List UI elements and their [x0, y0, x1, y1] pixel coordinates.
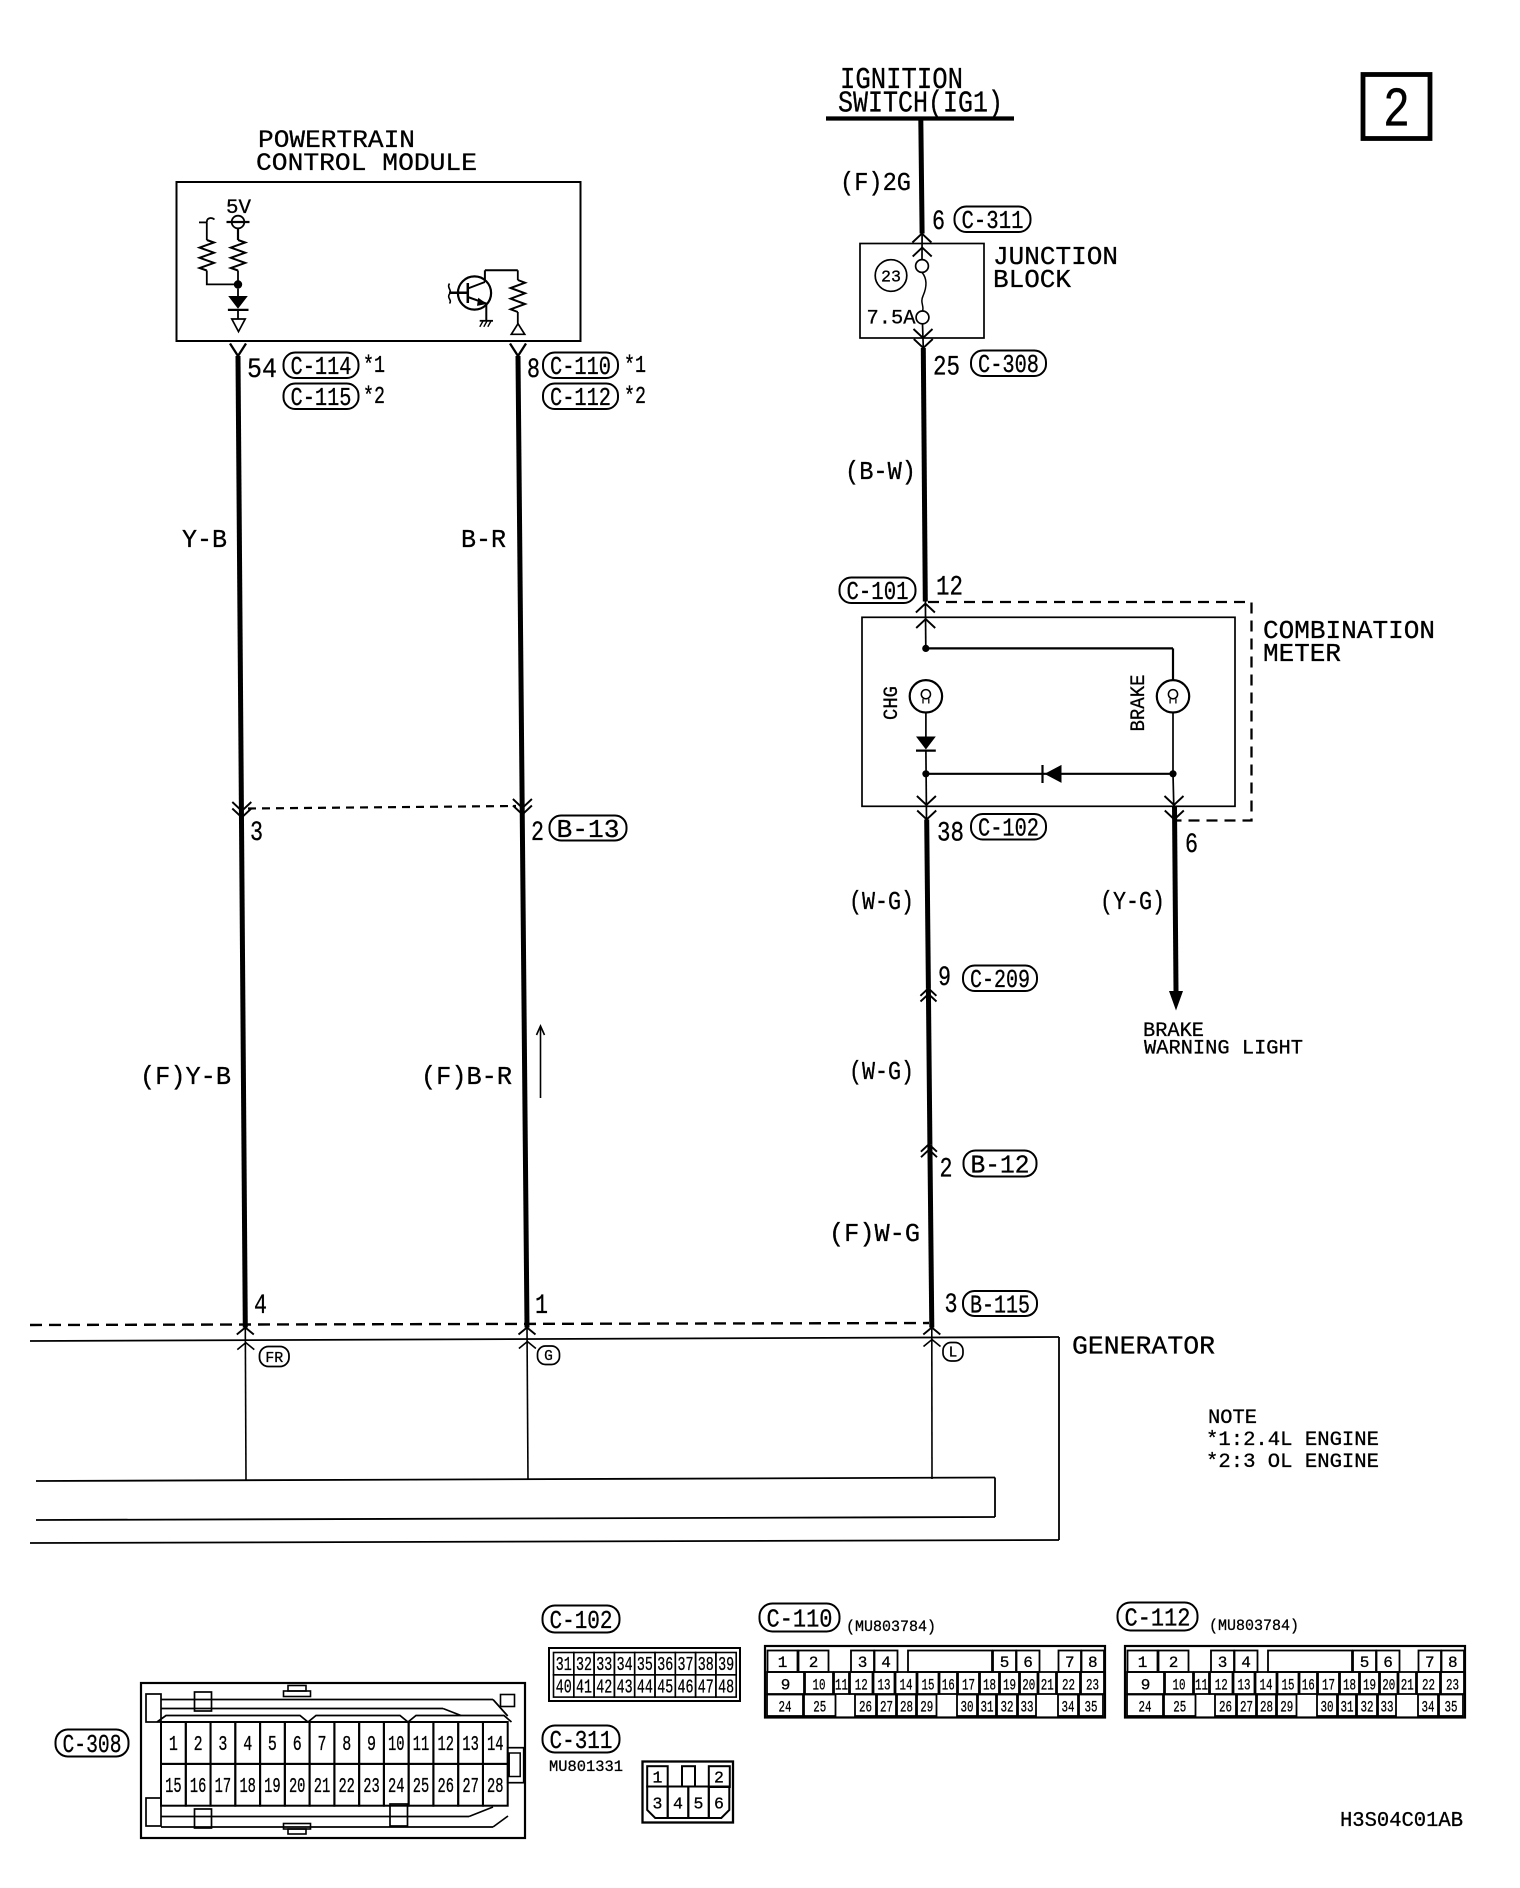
label (F)B-R [421, 1062, 512, 1092]
svg-text:43: 43 [617, 1676, 633, 1698]
svg-text:12: 12 [438, 1734, 455, 1757]
pin 1 label [535, 1291, 548, 1322]
svg-text:38: 38 [937, 819, 964, 850]
wire R2 to node [207, 271, 234, 285]
combination meter dashed outline [928, 602, 1252, 821]
generator wire L [931, 1328, 933, 1480]
svg-text:(F)W-G: (F)W-G [829, 1219, 920, 1249]
connector B-13 [550, 815, 627, 845]
svg-text:1: 1 [1138, 1654, 1148, 1672]
wire junction to meter [923, 324, 926, 649]
terminal FR [260, 1347, 290, 1367]
connector C-114 [284, 352, 359, 382]
svg-text:32: 32 [1361, 1699, 1374, 1717]
svg-text:20: 20 [1382, 1677, 1395, 1695]
svg-text:5: 5 [268, 1734, 277, 1757]
diode D3 [1043, 765, 1062, 783]
svg-text:11: 11 [413, 1734, 430, 1757]
wire node D to meter exit [1173, 774, 1174, 820]
svg-text:54: 54 [247, 355, 277, 386]
svg-text:13: 13 [462, 1734, 479, 1757]
svg-text:22: 22 [338, 1776, 355, 1799]
svg-text:45: 45 [657, 1676, 673, 1698]
fuse 7.5A [916, 260, 929, 324]
svg-text:(W-G): (W-G) [849, 1057, 914, 1087]
svg-text:23: 23 [363, 1776, 380, 1799]
svg-text:1: 1 [653, 1769, 663, 1788]
svg-text:32: 32 [576, 1654, 592, 1676]
pin 3 label (B-115) [945, 1290, 958, 1321]
pin 12 label [936, 573, 963, 604]
svg-text:25: 25 [813, 1699, 826, 1717]
connector B-13 chevrons left [232, 802, 251, 818]
svg-text:28: 28 [900, 1699, 913, 1717]
svg-text:(W-G): (W-G) [849, 887, 914, 917]
svg-text:1: 1 [778, 1654, 788, 1672]
generator pin L chevrons [923, 1328, 940, 1347]
svg-text:6: 6 [1023, 1654, 1033, 1672]
flow arrow [537, 1026, 545, 1098]
terminal L [943, 1343, 963, 1362]
svg-text:34: 34 [1062, 1699, 1075, 1717]
svg-text:3: 3 [858, 1654, 868, 1672]
wire W-G middle [928, 988, 930, 1144]
label (F)W-G [829, 1219, 920, 1249]
svg-text:47: 47 [698, 1676, 714, 1698]
svg-text:2: 2 [1169, 1654, 1179, 1672]
svg-text:C-311: C-311 [550, 1726, 613, 1756]
svg-text:3: 3 [218, 1734, 227, 1757]
svg-text:17: 17 [1322, 1677, 1335, 1695]
open arrow at pin 8 [511, 324, 524, 335]
connector C-110 pinout [765, 1646, 1105, 1718]
svg-text:15: 15 [922, 1677, 935, 1695]
svg-text:Y-B: Y-B [182, 525, 227, 555]
transistor Q1 collector [468, 270, 485, 288]
svg-text:14: 14 [900, 1677, 913, 1695]
junction block label [993, 242, 1118, 295]
svg-text:*1: *1 [624, 353, 646, 380]
svg-text:L: L [949, 1346, 958, 1362]
svg-text:9: 9 [1141, 1677, 1151, 1695]
wire ignition to junction block [921, 119, 922, 260]
svg-text:6: 6 [1383, 1654, 1393, 1672]
terminal G [538, 1346, 560, 1365]
connector B-13 dashed line [248, 806, 516, 809]
svg-text:21: 21 [1401, 1677, 1414, 1695]
generator label [1072, 1332, 1215, 1362]
open arrow to pin 54 [232, 319, 245, 332]
svg-text:BLOCK: BLOCK [993, 265, 1071, 295]
svg-text:18: 18 [239, 1776, 256, 1799]
svg-text:C-110: C-110 [767, 1604, 833, 1634]
svg-text:10: 10 [813, 1677, 826, 1695]
junction exit chevrons [914, 329, 933, 348]
label B-R [461, 525, 506, 555]
svg-text:30: 30 [961, 1699, 974, 1717]
svg-text:19: 19 [1003, 1677, 1016, 1695]
meter entry chevrons [916, 604, 935, 629]
label BRAKE [1128, 675, 1151, 732]
svg-text:12: 12 [1215, 1677, 1228, 1695]
pin 54 label [247, 355, 277, 386]
svg-text:(F)2G: (F)2G [840, 168, 911, 198]
svg-text:8: 8 [342, 1734, 351, 1757]
svg-text:21: 21 [1041, 1677, 1054, 1695]
svg-text:C-308: C-308 [63, 1730, 122, 1760]
svg-text:19: 19 [1363, 1677, 1376, 1695]
svg-text:33: 33 [1021, 1699, 1034, 1717]
svg-text:25: 25 [413, 1776, 430, 1799]
svg-text:8: 8 [1088, 1654, 1098, 1672]
svg-text:24: 24 [388, 1776, 405, 1799]
meter lower rail [926, 773, 1173, 775]
connector C-102 ref [971, 814, 1046, 844]
svg-text:(F)Y-B: (F)Y-B [140, 1062, 231, 1092]
connector C-102 pinout [549, 1648, 740, 1701]
wire F W-G [930, 1144, 932, 1327]
label (F)Y-B [140, 1062, 231, 1092]
note mark *2 (C-115) [363, 384, 385, 411]
brake warning light arrow [1169, 991, 1183, 1011]
svg-text:*1:2.4L ENGINE: *1:2.4L ENGINE [1206, 1429, 1379, 1452]
svg-text:4: 4 [254, 1291, 267, 1322]
generator bus top [36, 1478, 995, 1482]
svg-text:35: 35 [637, 1654, 653, 1676]
svg-text:31: 31 [556, 1654, 572, 1676]
pin 38 label [937, 819, 964, 850]
svg-text:(B-W): (B-W) [845, 457, 916, 487]
svg-text:4: 4 [673, 1795, 683, 1814]
connector C-308 ref label [56, 1730, 129, 1760]
svg-text:23: 23 [1446, 1677, 1459, 1695]
note text [1206, 1407, 1379, 1474]
connector B-12 chevrons [921, 1144, 937, 1157]
pin 6 label (brake) [1185, 830, 1198, 861]
svg-text:27: 27 [1240, 1699, 1253, 1717]
svg-text:MU801331: MU801331 [549, 1758, 623, 1776]
svg-text:7.5A: 7.5A [867, 308, 916, 331]
generator pin G chevrons [519, 1328, 536, 1349]
svg-text:34: 34 [1422, 1699, 1435, 1717]
connector C-110 part number [846, 1618, 936, 1636]
fuse number 23 [875, 260, 907, 292]
connector C-112 pinout [1125, 1646, 1465, 1718]
connector C-115 [284, 383, 359, 413]
transistor Q1 emitter [468, 297, 487, 306]
svg-text:SWITCH(IG1): SWITCH(IG1) [838, 87, 1003, 122]
ground [480, 321, 493, 327]
svg-text:20: 20 [289, 1776, 306, 1799]
svg-text:30: 30 [1321, 1699, 1334, 1717]
connector C-311 ref label [543, 1726, 620, 1756]
svg-text:44: 44 [637, 1676, 653, 1698]
svg-text:16: 16 [190, 1776, 207, 1799]
resistor R2 [200, 240, 214, 271]
node D [1169, 770, 1176, 777]
svg-text:G: G [544, 1349, 553, 1365]
svg-text:19: 19 [264, 1776, 281, 1799]
svg-text:39: 39 [718, 1654, 734, 1676]
wire CHG lamp to diode [925, 713, 927, 737]
label (B-W) [845, 457, 916, 487]
label (W-G) upper [849, 887, 914, 917]
svg-text:9: 9 [781, 1677, 791, 1695]
connector C-311 part number [549, 1758, 623, 1776]
svg-text:7: 7 [318, 1734, 327, 1757]
svg-text:*2: *2 [624, 384, 646, 411]
svg-text:10: 10 [1173, 1677, 1186, 1695]
svg-text:(MU803784): (MU803784) [1209, 1617, 1299, 1635]
svg-text:22: 22 [1422, 1677, 1435, 1695]
meter top rail [926, 647, 1173, 649]
svg-text:48: 48 [718, 1676, 734, 1698]
label (F)2G [840, 168, 911, 198]
resistor R3 [511, 280, 525, 312]
svg-text:*2: *2 [363, 384, 385, 411]
svg-text:32: 32 [1001, 1699, 1014, 1717]
label Y-B [182, 525, 227, 555]
node B [922, 645, 929, 652]
combination meter box [862, 617, 1235, 806]
connector B-12 ref [964, 1150, 1037, 1180]
svg-text:40: 40 [556, 1676, 572, 1698]
note mark *1 (C-110) [624, 353, 646, 380]
svg-text:B-13: B-13 [557, 815, 620, 845]
diode D1 [228, 289, 249, 319]
brake warning light label [1143, 1020, 1303, 1061]
svg-text:6: 6 [714, 1795, 724, 1814]
svg-text:26: 26 [1219, 1699, 1232, 1717]
svg-text:8: 8 [1448, 1654, 1458, 1672]
svg-text:22: 22 [1062, 1677, 1075, 1695]
label CHG [881, 686, 904, 720]
svg-text:1: 1 [169, 1734, 178, 1757]
node A [234, 280, 242, 288]
svg-text:26: 26 [859, 1699, 872, 1717]
svg-text:13: 13 [1238, 1677, 1251, 1695]
meter exit chevrons BRAKE [1165, 796, 1184, 820]
svg-text:C-115: C-115 [291, 383, 352, 413]
svg-text:23: 23 [881, 269, 901, 288]
svg-text:B-R: B-R [461, 525, 506, 555]
svg-text:4: 4 [881, 1654, 891, 1672]
generator box top [30, 1337, 1059, 1341]
wire diode to node C [925, 751, 928, 820]
emitter wire [485, 304, 487, 321]
generator box bottom [30, 1540, 1059, 1543]
node C [922, 770, 929, 777]
svg-text:2: 2 [714, 1769, 724, 1788]
svg-text:14: 14 [487, 1734, 504, 1757]
svg-text:38: 38 [698, 1654, 714, 1676]
connector C-110 ref [543, 352, 618, 382]
svg-text:2: 2 [809, 1654, 819, 1672]
lamp BRAKE [1157, 680, 1189, 712]
svg-text:(F)B-R: (F)B-R [421, 1062, 512, 1092]
wire R1 to node [237, 271, 239, 282]
svg-text:C-209: C-209 [970, 965, 1030, 995]
pin 6 label [932, 207, 945, 238]
svg-text:FR: FR [265, 1350, 283, 1367]
svg-text:2: 2 [1383, 79, 1410, 143]
svg-text:(Y-G): (Y-G) [1100, 887, 1165, 917]
svg-text:18: 18 [983, 1677, 996, 1695]
resistor R1 [231, 240, 245, 271]
svg-text:15: 15 [1282, 1677, 1295, 1695]
svg-text:5: 5 [1000, 1654, 1010, 1672]
svg-text:8: 8 [527, 355, 540, 386]
generator wire FR [244, 1328, 247, 1482]
svg-text:25: 25 [1173, 1699, 1186, 1717]
svg-text:7: 7 [1425, 1654, 1435, 1672]
svg-text:28: 28 [487, 1776, 504, 1799]
generator bus bottom [36, 1517, 995, 1520]
svg-text:C-114: C-114 [291, 352, 352, 382]
svg-text:20: 20 [1022, 1677, 1035, 1695]
svg-text:16: 16 [942, 1677, 955, 1695]
meter exit chevrons CHG [917, 796, 936, 820]
svg-text:15: 15 [165, 1776, 182, 1799]
wire W-G upper [927, 820, 929, 989]
svg-text:C-102: C-102 [978, 814, 1039, 844]
connector C-308 pinout [141, 1683, 525, 1838]
wire R3 to pin 8 [517, 312, 519, 324]
junction entry chevrons [912, 234, 931, 257]
generator dashed line [30, 1323, 929, 1325]
note mark *1 (C-114) [363, 353, 385, 380]
pin 8 connector symbol [510, 344, 526, 357]
pin 25 label [933, 353, 960, 384]
svg-text:37: 37 [678, 1654, 694, 1676]
svg-text:2: 2 [194, 1734, 203, 1757]
ignition switch label [838, 63, 1003, 122]
connector C-112 pinout label [1118, 1603, 1198, 1634]
svg-text:*2:3 OL ENGINE: *2:3 OL ENGINE [1206, 1451, 1379, 1474]
svg-text:9: 9 [938, 963, 951, 994]
svg-text:9: 9 [367, 1734, 376, 1757]
connector B-115 ref [963, 1290, 1037, 1320]
lamp CHG [910, 680, 942, 712]
PCM box [177, 182, 581, 341]
wire BRAKE lamp to node D [1172, 713, 1174, 774]
svg-text:17: 17 [962, 1677, 975, 1695]
generator wire G [527, 1328, 528, 1481]
wire Y-B [238, 356, 245, 1328]
svg-text:36: 36 [657, 1654, 673, 1676]
svg-text:31: 31 [981, 1699, 994, 1717]
note mark *2 (C-112) [624, 384, 646, 411]
svg-text:21: 21 [314, 1776, 331, 1799]
generator pin FR chevrons [237, 1328, 255, 1350]
svg-text:41: 41 [576, 1676, 592, 1698]
svg-text:3: 3 [250, 818, 263, 849]
label (W-G) lower [849, 1057, 914, 1087]
combination meter label [1263, 616, 1435, 669]
svg-text:*1: *1 [363, 353, 385, 380]
svg-text:C-308: C-308 [978, 350, 1039, 380]
svg-text:27: 27 [462, 1776, 479, 1799]
junction block box [860, 244, 984, 339]
ignition switch bar [826, 116, 1014, 120]
connector C-112 part number [1209, 1617, 1299, 1635]
svg-text:6: 6 [1185, 830, 1198, 861]
svg-text:B-12: B-12 [971, 1150, 1030, 1180]
svg-text:24: 24 [779, 1699, 792, 1717]
pin 3 label [250, 818, 263, 849]
svg-text:31: 31 [1341, 1699, 1354, 1717]
connector C-308 ref [971, 350, 1046, 380]
label (Y-G) [1100, 887, 1165, 917]
svg-text:BRAKE: BRAKE [1128, 675, 1151, 732]
svg-text:33: 33 [1381, 1699, 1394, 1717]
transistor Q1 base [449, 283, 468, 303]
svg-text:10: 10 [388, 1734, 405, 1757]
svg-text:C-112: C-112 [1125, 1603, 1191, 1633]
wire B-R [518, 356, 527, 1328]
svg-text:C-102: C-102 [550, 1606, 613, 1636]
connector C-209 chevrons [920, 988, 936, 1001]
svg-text:C-112: C-112 [550, 383, 611, 413]
svg-text:WARNING LIGHT: WARNING LIGHT [1144, 1038, 1303, 1061]
svg-text:4: 4 [243, 1734, 252, 1757]
svg-text:6: 6 [932, 207, 945, 238]
pin 4 label [254, 1291, 267, 1322]
brake lamp feed wire [1172, 648, 1174, 680]
drawing number [1340, 1810, 1463, 1833]
fuse rating label [867, 308, 916, 331]
svg-text:B-115: B-115 [970, 1290, 1030, 1320]
svg-text:11: 11 [1195, 1677, 1208, 1695]
svg-text:CHG: CHG [881, 686, 904, 720]
svg-text:25: 25 [933, 353, 960, 384]
svg-text:14: 14 [1260, 1677, 1273, 1695]
resistor R3 lead [517, 270, 519, 280]
generator box right [1058, 1337, 1060, 1540]
transistor Q1 circle [458, 276, 491, 309]
generator bus right [994, 1478, 996, 1518]
svg-text:17: 17 [215, 1776, 232, 1799]
svg-text:4: 4 [1241, 1654, 1251, 1672]
diode D2 [916, 737, 936, 751]
svg-text:18: 18 [1343, 1677, 1356, 1695]
svg-text:(MU803784): (MU803784) [846, 1618, 936, 1636]
svg-text:29: 29 [1280, 1699, 1293, 1717]
connector C-311 pinout [643, 1762, 734, 1823]
svg-text:NOTE: NOTE [1208, 1407, 1257, 1430]
svg-text:13: 13 [878, 1677, 891, 1695]
pin 8 label [527, 355, 540, 386]
svg-text:2: 2 [531, 818, 544, 849]
svg-text:GENERATOR: GENERATOR [1072, 1332, 1215, 1362]
wire Y-G [1175, 806, 1177, 991]
connector C-209 ref [963, 965, 1037, 995]
svg-text:35: 35 [1085, 1699, 1098, 1717]
transistor Q1 base squiggle [449, 284, 451, 304]
svg-text:23: 23 [1086, 1677, 1099, 1695]
svg-text:6: 6 [293, 1734, 302, 1757]
svg-text:C-311: C-311 [962, 206, 1024, 236]
svg-text:METER: METER [1263, 639, 1341, 669]
connector B-13 chevrons right [513, 799, 532, 815]
resistor R2 lead hook [199, 218, 215, 240]
svg-text:7: 7 [1065, 1654, 1075, 1672]
svg-text:CONTROL MODULE: CONTROL MODULE [256, 149, 477, 178]
pin 2 label [531, 818, 544, 849]
svg-text:2: 2 [940, 1155, 953, 1186]
svg-text:33: 33 [596, 1654, 612, 1676]
svg-text:29: 29 [920, 1699, 933, 1717]
